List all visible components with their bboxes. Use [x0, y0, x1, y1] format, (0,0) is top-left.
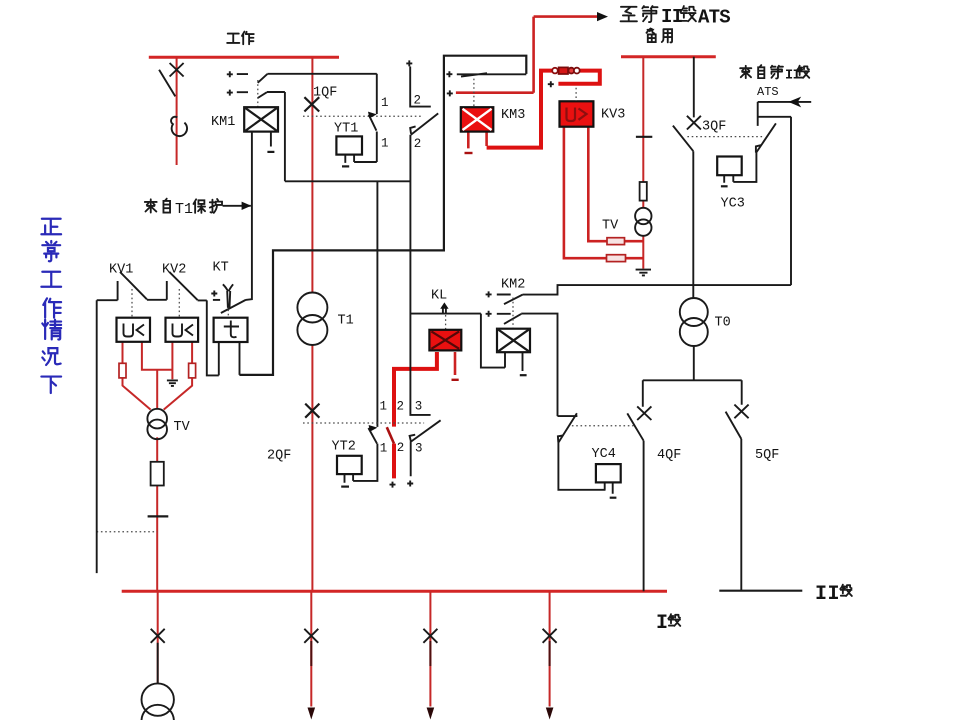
svg-text:KM2: KM2 — [501, 278, 525, 293]
svg-text:KV3: KV3 — [601, 108, 625, 123]
svg-text:3: 3 — [415, 399, 423, 413]
svg-text:YT2: YT2 — [332, 440, 356, 455]
svg-text:2QF: 2QF — [267, 449, 291, 464]
svg-text:3QF: 3QF — [702, 120, 726, 135]
svg-text:II: II — [661, 6, 683, 28]
svg-text:ATS: ATS — [698, 7, 730, 29]
svg-text:5QF: 5QF — [755, 448, 779, 463]
svg-text:KL: KL — [431, 289, 447, 304]
svg-text:YT1: YT1 — [334, 122, 358, 137]
svg-text:ATS: ATS — [757, 85, 779, 99]
svg-text:2: 2 — [414, 94, 422, 108]
svg-text:KM1: KM1 — [211, 115, 235, 130]
svg-text:4QF: 4QF — [657, 448, 681, 463]
svg-text:KT: KT — [213, 261, 229, 276]
svg-text:1QF: 1QF — [313, 86, 337, 101]
svg-text:1: 1 — [380, 442, 388, 456]
svg-text:KM3: KM3 — [501, 108, 525, 123]
svg-text:II: II — [815, 583, 840, 606]
svg-text:TV: TV — [174, 420, 191, 435]
svg-text:YC3: YC3 — [721, 197, 745, 212]
svg-text:1: 1 — [381, 137, 389, 151]
svg-text:YC4: YC4 — [592, 447, 616, 462]
svg-text:T1: T1 — [338, 314, 354, 329]
svg-text:1: 1 — [381, 96, 389, 110]
svg-text:3: 3 — [415, 441, 423, 455]
svg-text:KV2: KV2 — [162, 263, 186, 278]
svg-text:T1: T1 — [175, 201, 193, 218]
svg-text:2: 2 — [397, 399, 405, 413]
svg-text:I: I — [656, 612, 668, 635]
svg-text:T0: T0 — [715, 316, 731, 331]
svg-text:2: 2 — [414, 137, 422, 151]
svg-text:KV1: KV1 — [109, 263, 133, 278]
svg-text:TV: TV — [602, 219, 619, 234]
svg-text:2: 2 — [397, 441, 405, 455]
svg-text:1: 1 — [380, 400, 388, 414]
